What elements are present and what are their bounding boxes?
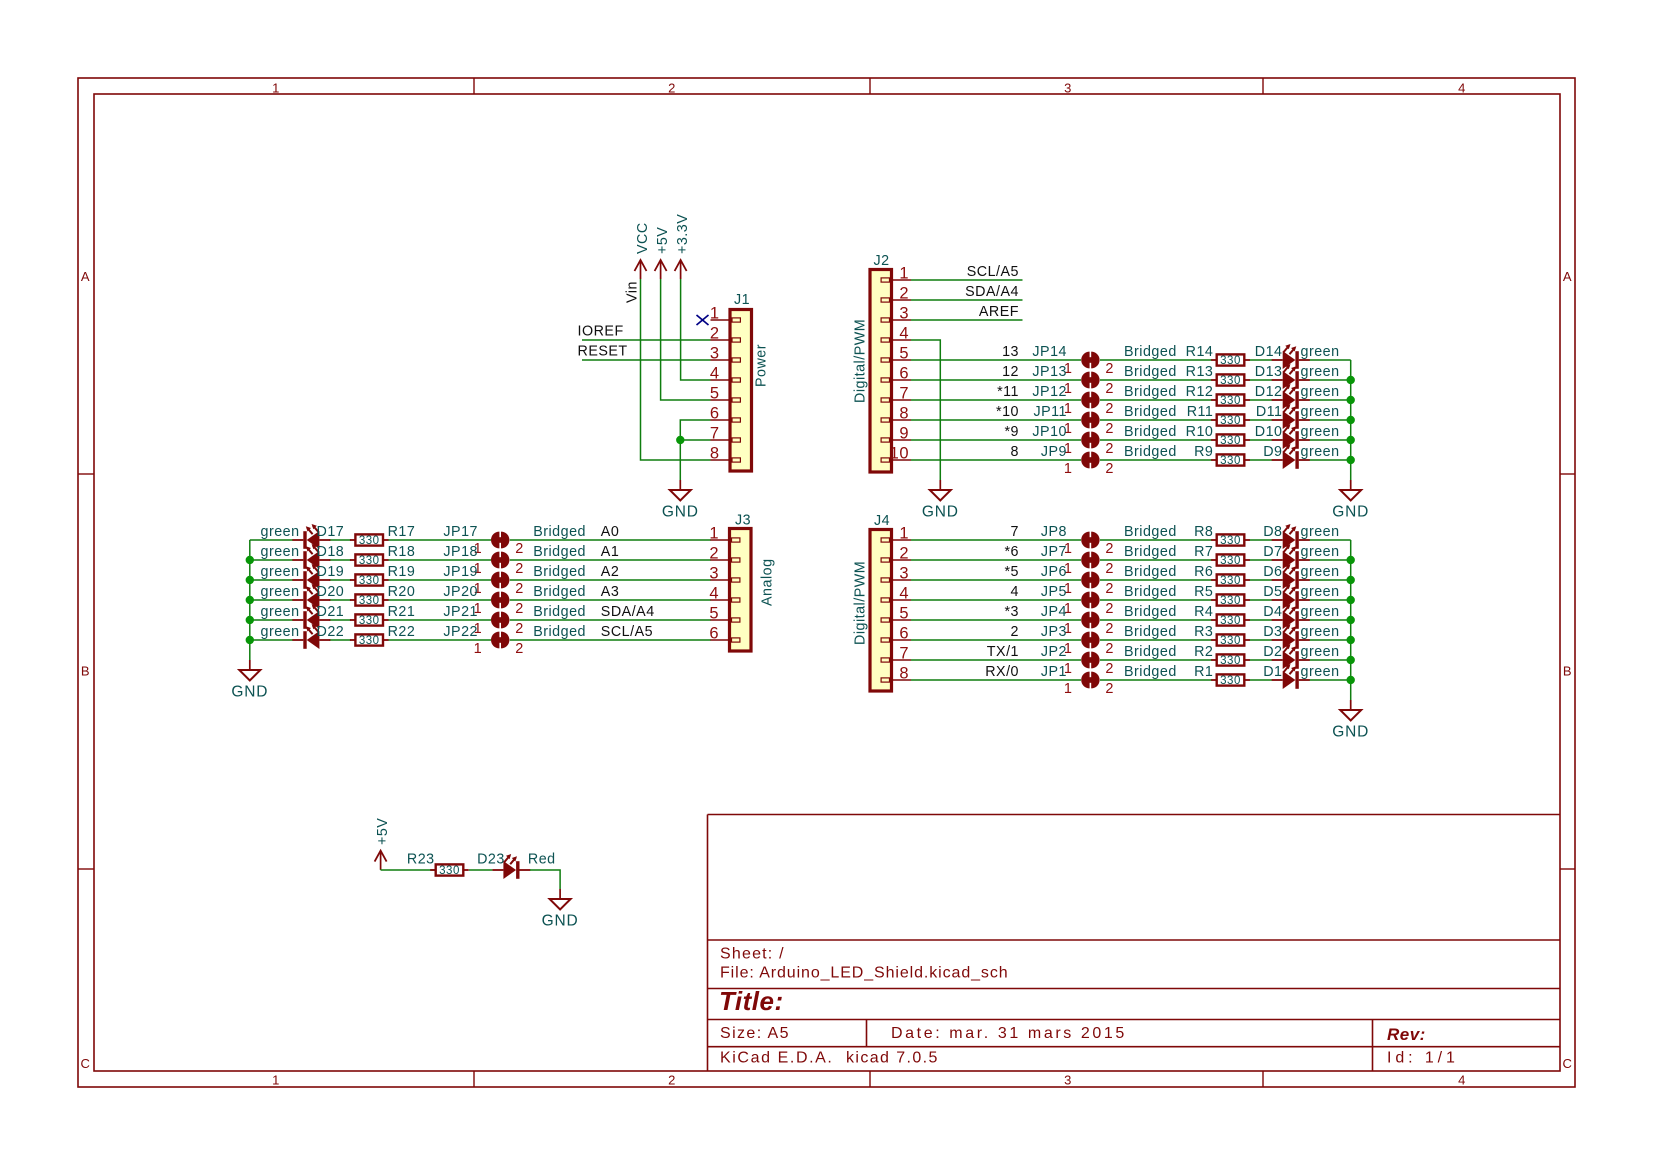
svg-text:green: green [1301,344,1340,360]
svg-text:Vin: Vin [625,281,641,303]
svg-text:Sheet: /: Sheet: / [720,946,785,963]
svg-text:R13: R13 [1186,364,1214,380]
solder jumper JP13 [1032,364,1114,397]
svg-text:330: 330 [1220,635,1241,647]
svg-text:R19: R19 [388,564,416,580]
solder jumper JP5 [1041,584,1114,617]
label Bridged JP6 [1124,564,1177,580]
label Bridged JP7 [1124,544,1177,560]
solder jumper JP4 [1041,604,1114,637]
LED D4 [1263,604,1339,629]
resistor R12 [1186,384,1250,407]
wire J4 LED rail [1350,540,1352,700]
svg-text:Bridged: Bridged [1124,604,1177,620]
svg-text:R10: R10 [1186,424,1214,440]
svg-text:Bridged: Bridged [533,544,586,560]
label AREF [979,304,1019,320]
svg-text:Size: A5: Size: A5 [720,1025,790,1042]
svg-text:JP2: JP2 [1041,644,1067,660]
svg-text:10: 10 [890,445,909,463]
svg-text:330: 330 [1220,615,1241,627]
svg-text:GND: GND [231,684,268,701]
svg-text:2: 2 [899,285,909,303]
solder jumper JP19 [443,564,523,597]
svg-text:2: 2 [515,581,524,597]
svg-text:green: green [261,584,300,600]
svg-text:4: 4 [899,585,909,603]
svg-text:8: 8 [899,665,909,683]
svg-text:4: 4 [1011,584,1019,600]
svg-text:GND: GND [662,504,699,521]
svg-text:JP17: JP17 [443,524,478,540]
svg-text:R12: R12 [1186,384,1214,400]
svg-text:A: A [1563,269,1572,284]
svg-text:7: 7 [1011,524,1019,540]
svg-text:2: 2 [899,545,909,563]
resistor R17 [350,524,415,547]
svg-text:D17: D17 [317,524,345,540]
junction LED rail J4 [1347,556,1355,564]
wire 2 row [911,639,1351,641]
wire SDA/A4 [911,299,1023,301]
resistor R9 [1194,444,1250,467]
svg-text:13: 13 [1002,344,1019,360]
label net *6 [1004,544,1019,560]
wire VCC to pin 8 [641,279,711,460]
svg-text:3: 3 [899,565,909,583]
power +5V arrow [655,260,667,279]
svg-text:KiCad E.D.A.: KiCad E.D.A. [720,1050,833,1067]
svg-text:2: 2 [668,81,676,96]
LED D19 [261,564,345,589]
label Bridged JP2 [1124,644,1177,660]
wire IOREF pin 2 [582,339,711,341]
svg-text:3: 3 [1064,81,1072,96]
svg-text:A3: A3 [601,584,620,600]
svg-text:8: 8 [899,405,909,423]
svg-text:J4: J4 [874,513,890,529]
wire TX/1 row [911,659,1351,661]
svg-text:D4: D4 [1263,604,1282,620]
svg-text:6: 6 [899,365,909,383]
label Bridged JP9 [1124,444,1177,460]
svg-text:Date: mar. 31 mars 2015: Date: mar. 31 mars 2015 [891,1025,1127,1042]
svg-text:Bridged: Bridged [1124,444,1177,460]
svg-text:green: green [1301,444,1340,460]
svg-text:330: 330 [1220,535,1241,547]
svg-text:D22: D22 [317,624,345,640]
label net SCL/A5 [601,624,653,640]
svg-text:SCL/A5: SCL/A5 [967,264,1019,280]
wire 8 row [911,459,1351,461]
svg-text:Bridged: Bridged [1124,544,1177,560]
wire *9 row [911,439,1351,441]
svg-text:1: 1 [1064,461,1073,477]
svg-text:VCC: VCC [635,222,651,254]
svg-text:JP9: JP9 [1041,444,1067,460]
label net *3 [1004,604,1019,620]
label net 13 [1002,344,1019,360]
svg-text:2: 2 [1105,381,1114,397]
svg-text:330: 330 [359,615,380,627]
solder jumper JP8 [1041,524,1114,557]
J1 pin numbers 1-8 [710,305,720,463]
svg-text:GND: GND [922,504,959,521]
svg-text:7: 7 [710,425,720,443]
svg-text:SDA/A4: SDA/A4 [965,284,1019,300]
svg-text:2: 2 [1105,441,1114,457]
junction LED rail J4 [1347,616,1355,624]
svg-text:1: 1 [272,1073,280,1088]
svg-text:GND: GND [1332,724,1369,741]
svg-text:green: green [1301,524,1340,540]
wire +5V to R23 [381,869,436,871]
svg-text:green: green [261,544,300,560]
svg-text:2: 2 [1105,681,1114,697]
svg-text:2: 2 [1105,581,1114,597]
wire AREF [911,319,1023,321]
svg-text:Red: Red [528,852,556,868]
svg-text:5: 5 [899,605,909,623]
LED D20 [261,584,345,609]
svg-text:IOREF: IOREF [578,324,624,340]
svg-text:4: 4 [1458,1073,1466,1088]
svg-text:green: green [261,604,300,620]
title block file text [720,965,1009,982]
svg-text:A0: A0 [601,524,620,540]
svg-text:2: 2 [1105,461,1114,477]
resistor R23 [407,852,469,878]
svg-text:GND: GND [542,913,579,930]
LED D1 [1263,664,1339,689]
svg-text:R3: R3 [1194,624,1213,640]
junction LED rail [1347,416,1355,424]
svg-text:R4: R4 [1194,604,1213,620]
svg-text:330: 330 [359,555,380,567]
wire *3 row [911,619,1351,621]
svg-text:6: 6 [899,625,909,643]
svg-text:7: 7 [899,385,909,403]
label net A1 [601,544,620,560]
svg-text:D10: D10 [1255,424,1283,440]
svg-text:green: green [1301,564,1340,580]
svg-text:R20: R20 [388,584,416,600]
solder jumper JP18 [443,544,523,577]
junction LED rail left [246,636,254,644]
svg-text:JP11: JP11 [1033,404,1067,420]
svg-text:2: 2 [1105,561,1114,577]
svg-text:Digital/PWM: Digital/PWM [853,561,869,645]
no-connect pin 1 [697,315,709,325]
connector J4 [853,513,912,691]
wire SCL/A5 row [250,639,711,641]
svg-text:JP14: JP14 [1032,344,1067,360]
ground J4 LED rail [1332,700,1369,741]
svg-text:Id: 1/1: Id: 1/1 [1387,1050,1459,1067]
svg-text:Bridged: Bridged [1124,384,1177,400]
svg-text:D23: D23 [477,852,505,868]
wire *5 row [911,579,1351,581]
label net SDA/A4 [601,604,655,620]
svg-text:Bridged: Bridged [1124,584,1177,600]
svg-text:R5: R5 [1194,584,1213,600]
svg-text:R9: R9 [1194,444,1213,460]
svg-text:1: 1 [899,525,909,543]
svg-text:4: 4 [709,585,719,603]
LED D3 [1263,624,1339,649]
label SCL/A5 [967,264,1019,280]
resistor R22 [350,624,415,647]
svg-text:R2: R2 [1194,644,1213,660]
svg-text:D12: D12 [1255,384,1283,400]
svg-text:R14: R14 [1186,344,1214,360]
label net 12 [1002,364,1019,380]
svg-text:+5V: +5V [655,227,671,254]
LED D12 [1255,384,1340,409]
svg-text:R23: R23 [407,852,435,868]
label Bridged JP1 [1124,664,1177,680]
svg-text:2: 2 [1105,661,1114,677]
svg-text:4: 4 [710,365,720,383]
title block kicad text [720,1050,939,1067]
ground D23 [542,889,579,930]
resistor R2 [1194,644,1250,667]
svg-text:B: B [1563,664,1572,679]
svg-text:*3: *3 [1004,604,1019,620]
svg-text:R7: R7 [1194,544,1213,560]
label +5V [655,227,671,254]
svg-text:330: 330 [1220,675,1241,687]
svg-text:R8: R8 [1194,524,1213,540]
LED D8 [1263,524,1339,549]
svg-text:2: 2 [1105,641,1114,657]
svg-text:Rev:: Rev: [1387,1025,1426,1044]
svg-text:5: 5 [710,385,720,403]
label net 2 [1011,624,1019,640]
wire J3 LED rail [249,540,251,660]
wire A3 row [250,599,711,601]
svg-text:Bridged: Bridged [1124,624,1177,640]
solder jumper JP12 [1032,384,1114,417]
svg-text:2: 2 [1105,421,1114,437]
wire 12 row [911,379,1351,381]
svg-text:green: green [1301,584,1340,600]
svg-text:2: 2 [1105,361,1114,377]
label net A0 [601,524,620,540]
title block sheet text [720,946,785,963]
svg-text:330: 330 [1220,435,1241,447]
svg-text:1: 1 [474,641,483,657]
label net A3 [601,584,620,600]
svg-text:J1: J1 [734,292,750,308]
title block title label [719,986,784,1016]
svg-text:green: green [1301,664,1340,680]
LED D6 [1263,564,1339,589]
wire 13 row [911,359,1351,361]
svg-text:green: green [1301,384,1340,400]
svg-text:+3.3V: +3.3V [675,214,691,254]
svg-text:8: 8 [1011,444,1019,460]
label RESET [578,344,628,360]
junction LED rail J4 [1347,596,1355,604]
title block size text [720,1025,790,1042]
label Bridged JP17 [533,524,586,540]
label VCC [635,222,651,254]
svg-text:AREF: AREF [979,304,1019,320]
svg-text:D7: D7 [1263,544,1282,560]
svg-text:R22: R22 [388,624,416,640]
LED D2 [1263,644,1339,669]
svg-text:Title:: Title: [719,986,784,1016]
solder jumper JP3 [1041,624,1114,657]
svg-text:green: green [1301,364,1340,380]
svg-text:330: 330 [1220,415,1241,427]
svg-text:2: 2 [515,541,524,557]
label net RX/0 [985,664,1019,680]
svg-text:2: 2 [1105,621,1114,637]
svg-text:330: 330 [1220,655,1241,667]
label net *5 [1004,564,1019,580]
LED D23 [477,852,556,880]
wire A2 row [250,579,711,581]
svg-text:Bridged: Bridged [533,524,586,540]
label net *9 [1004,424,1019,440]
label Vin [625,281,641,303]
LED D22 [261,624,345,649]
LED D9 [1263,444,1339,469]
junction LED rail left [246,596,254,604]
wire 7 row [911,539,1351,541]
svg-text:D20: D20 [317,584,345,600]
svg-text:*9: *9 [1004,424,1019,440]
svg-text:12: 12 [1002,364,1019,380]
title block date text [891,1025,1127,1042]
svg-text:JP5: JP5 [1041,584,1067,600]
resistor R6 [1194,564,1250,587]
wire pin 6 to GND [680,420,710,480]
svg-text:Bridged: Bridged [533,624,586,640]
svg-text:330: 330 [1220,355,1241,367]
svg-text:330: 330 [359,575,380,587]
label +3.3V [675,214,691,254]
svg-text:green: green [1301,604,1340,620]
svg-text:Bridged: Bridged [1124,524,1177,540]
ground J1 [662,480,699,521]
svg-text:5: 5 [709,605,719,623]
solder jumper JP22 [443,624,523,657]
title block frame [708,815,1561,1072]
label SDA/A4 [965,284,1019,300]
label Bridged JP13 [1124,364,1177,380]
resistor R4 [1194,604,1250,627]
svg-text:JP21: JP21 [443,604,478,620]
LED D21 [261,604,345,629]
svg-text:D6: D6 [1263,564,1282,580]
svg-text:D9: D9 [1263,444,1282,460]
svg-text:D18: D18 [317,544,345,560]
wire SCL/A5 [911,279,1023,281]
svg-text:2: 2 [1105,401,1114,417]
label Bridged JP22 [533,624,586,640]
junction LED rail J4 [1347,656,1355,664]
svg-text:7: 7 [899,645,909,663]
solder jumper JP2 [1041,644,1114,677]
wire 4 row [911,599,1351,601]
svg-text:R11: R11 [1187,404,1214,420]
solder jumper JP6 [1041,564,1114,597]
svg-text:JP6: JP6 [1041,564,1067,580]
svg-text:330: 330 [1220,395,1241,407]
svg-text:6: 6 [709,625,719,643]
svg-text:C: C [1563,1056,1573,1071]
LED D5 [1263,584,1339,609]
svg-text:*5: *5 [1004,564,1019,580]
J4 pin numbers 1-8 [899,525,909,683]
svg-text:J2: J2 [874,253,890,269]
junction LED rail [1347,396,1355,404]
svg-text:1: 1 [709,525,719,543]
wire J2 pin 4 to GND [911,340,940,480]
svg-text:green: green [261,624,300,640]
svg-text:2: 2 [710,325,720,343]
svg-text:RX/0: RX/0 [985,664,1019,680]
wire RX/0 row [911,679,1351,681]
svg-text:A: A [81,269,90,284]
svg-text:3: 3 [710,345,720,363]
svg-text:JP4: JP4 [1041,604,1067,620]
svg-text:6: 6 [710,405,720,423]
junction LED rail J4 [1347,676,1355,684]
svg-text:R1: R1 [1194,664,1213,680]
resistor R14 [1186,344,1250,367]
svg-text:green: green [261,524,300,540]
label IOREF [578,324,624,340]
wire RESET pin 3 [582,359,711,361]
resistor R19 [350,564,415,587]
label Bridged JP19 [533,564,586,580]
junction LED rail J4 [1347,636,1355,644]
svg-text:A1: A1 [601,544,620,560]
resistor R7 [1194,544,1250,567]
junction LED rail left [246,556,254,564]
svg-text:1: 1 [710,305,720,323]
svg-text:2: 2 [515,561,524,577]
solder jumper JP21 [443,604,523,637]
svg-text:R17: R17 [388,524,416,540]
power +3.3V arrow [675,260,687,279]
LED D14 [1255,344,1340,369]
svg-text:3: 3 [1064,1073,1072,1088]
svg-text:C: C [81,1056,91,1071]
svg-text:kicad 7.0.5: kicad 7.0.5 [846,1050,939,1067]
svg-text:Analog: Analog [760,558,776,606]
svg-text:+5V: +5V [375,818,391,845]
svg-text:Bridged: Bridged [533,584,586,600]
svg-text:2: 2 [1011,624,1019,640]
svg-text:D2: D2 [1263,644,1282,660]
svg-text:2: 2 [668,1073,676,1088]
J2 pin numbers 1-10 [890,265,909,463]
LED D11 [1256,404,1340,429]
LED D13 [1255,364,1340,389]
resistor R8 [1194,524,1250,547]
label Bridged JP8 [1124,524,1177,540]
svg-text:green: green [1301,644,1340,660]
solder jumper JP7 [1041,544,1114,577]
svg-text:330: 330 [1220,575,1241,587]
wire pin 7 [680,439,710,441]
svg-text:*10: *10 [996,404,1019,420]
